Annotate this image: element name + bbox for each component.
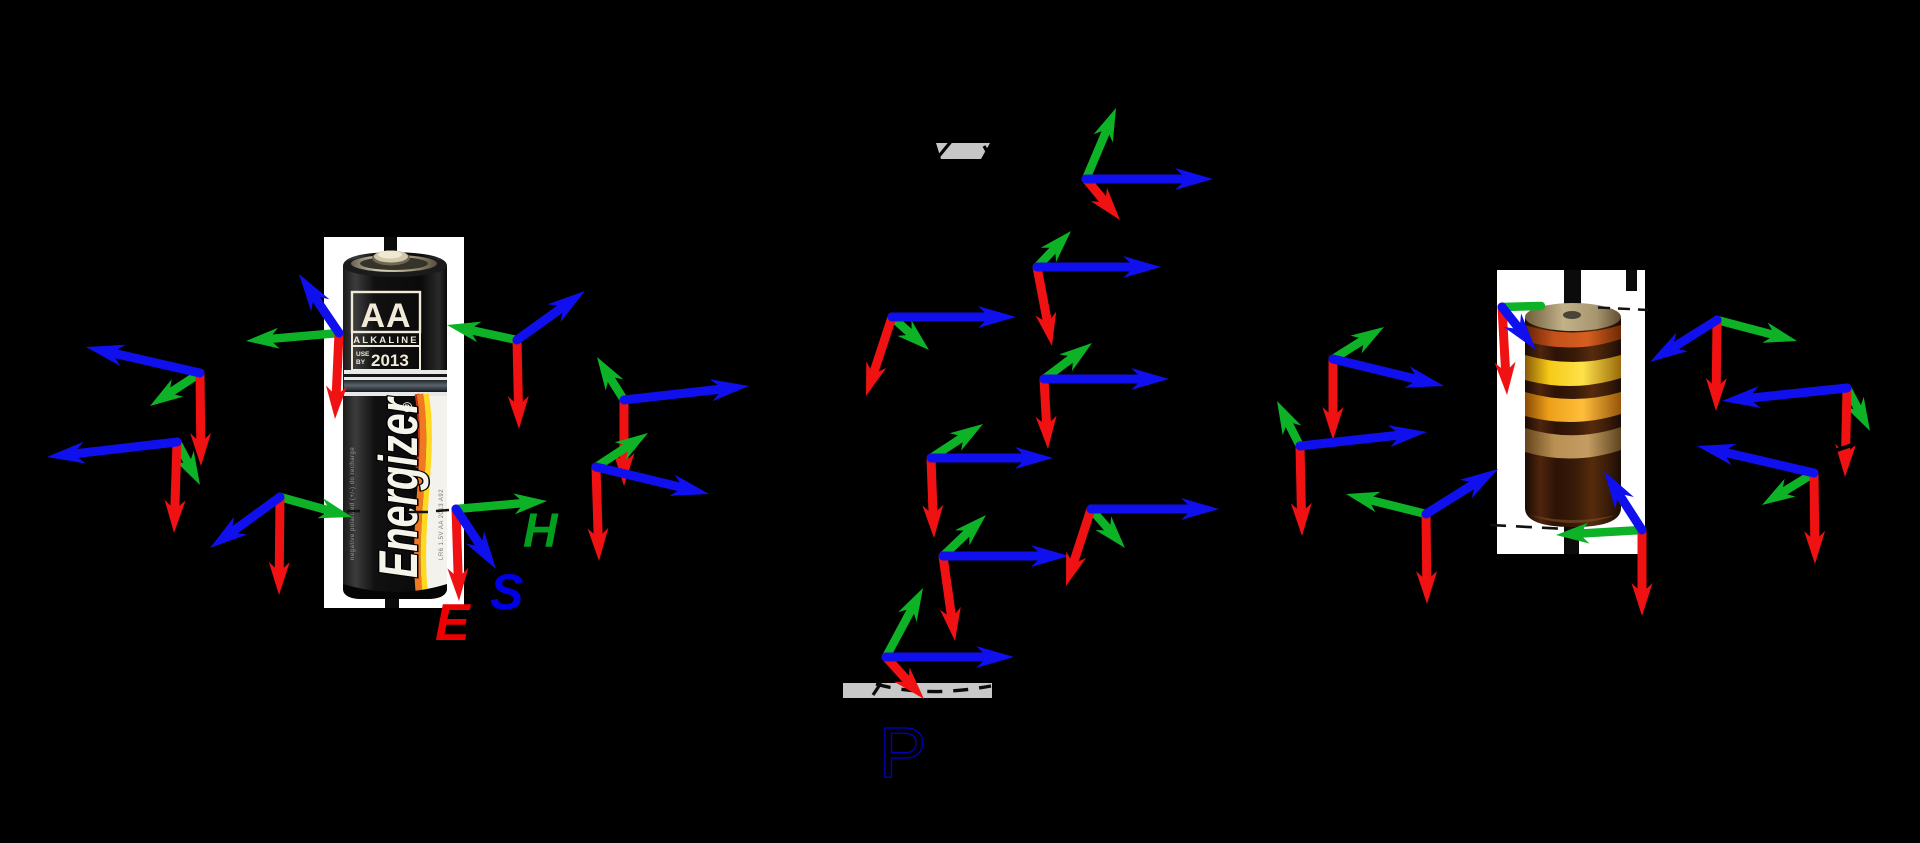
AA battery body bbox=[343, 251, 447, 600]
triad T6 right-of-battery-mid E-field arrow (red) bbox=[620, 400, 629, 466]
triad T6 right-of-battery-mid H-field arrow (green) bbox=[608, 374, 624, 400]
triad T3 far-left-lower E-field arrow (red) bbox=[175, 442, 177, 513]
triad M6 E-field arrow (red) bbox=[943, 556, 952, 621]
triad T6 right-of-battery-mid Poynting S arrow (blue) bbox=[624, 389, 726, 400]
resistor bottom lead wire bbox=[1564, 510, 1579, 554]
triad R3 left-of-resistor-lower E-field arrow (red) bbox=[1422, 514, 1432, 584]
triad RT1 resistor-top-left Poynting S arrow (blue) bbox=[1502, 307, 1521, 332]
svg-text:ALKALINE: ALKALINE bbox=[353, 335, 419, 346]
triad T4 below-battery-left Poynting S arrow (blue) bbox=[229, 497, 280, 534]
svg-text:LR6 1.5V AA 2013 A92: LR6 1.5V AA 2013 A92 bbox=[439, 489, 445, 560]
triad R6 far-right-lower H-field arrow (green) bbox=[1779, 473, 1814, 494]
triad T2 far-left-upper H-field arrow (green) bbox=[167, 373, 200, 395]
triad G battery-EHS-labelled Poynting S arrow (blue) bbox=[456, 509, 483, 549]
triad R2 left-of-resistor-mid H-field arrow (green) bbox=[1286, 419, 1300, 446]
black slash through parallelogram left bbox=[937, 142, 951, 159]
steep dash at plate left bbox=[873, 683, 881, 695]
triad R1 left-of-resistor-top E-field arrow (red) bbox=[1329, 359, 1338, 420]
triad M8 mid-bottom-at-plane E-field arrow (red) bbox=[886, 657, 910, 684]
triad M7 E-field arrow (red) bbox=[1072, 509, 1091, 567]
triad RT1 resistor-top-left H-field arrow (green) bbox=[1502, 306, 1541, 307]
triad R2 left-of-resistor-mid Poynting S arrow (blue) bbox=[1300, 435, 1404, 446]
triad T2 far-left-upper Poynting S arrow (blue) bbox=[109, 352, 200, 373]
swoosh yellow arc bbox=[423, 394, 429, 592]
triad R6 far-right-lower E-field arrow (red) bbox=[1810, 473, 1820, 544]
triad T7 right-of-battery-lower E-field arrow (red) bbox=[596, 467, 598, 541]
triad M3 Poynting S arrow (blue) bbox=[892, 313, 992, 322]
triad M1 mid-top E-field arrow (red) bbox=[1086, 179, 1107, 204]
triad T3 far-left-lower H-field arrow (green) bbox=[177, 442, 190, 467]
triad M5 Poynting S arrow (blue) bbox=[931, 454, 1029, 463]
bottom face light rim bbox=[1530, 515, 1616, 523]
resistor yellow band 1 bbox=[1525, 355, 1621, 386]
resistor tan band 3 bbox=[1525, 427, 1621, 459]
triad T5 battery-right-top E-field arrow (red) bbox=[517, 340, 519, 409]
triad T7 right-of-battery-lower Poynting S arrow (blue) bbox=[596, 467, 686, 489]
triad M4 E-field arrow (red) bbox=[1044, 379, 1047, 429]
gray absorbing plate (bottom) bbox=[843, 683, 992, 698]
triad RB resistor-bottom-right H-field arrow (green) bbox=[1576, 530, 1642, 534]
battery plus button terminal bbox=[372, 251, 410, 266]
battery AA label box bbox=[352, 292, 420, 332]
triad R5 far-right-mid H-field arrow (green) bbox=[1847, 388, 1860, 413]
triad M4 Poynting S arrow (blue) bbox=[1044, 375, 1145, 384]
svg-text:Energizer: Energizer bbox=[367, 396, 429, 578]
svg-text:H: H bbox=[523, 505, 559, 558]
triad T1 battery-left-top H-field arrow (green) bbox=[266, 333, 339, 339]
triad R1 left-of-resistor-top Poynting S arrow (blue) bbox=[1333, 359, 1421, 380]
battery bottom lead wire bbox=[385, 597, 399, 608]
svg-text:BY: BY bbox=[356, 359, 366, 366]
battery USE BY 2013 box bbox=[352, 346, 420, 370]
resistor body bbox=[1525, 303, 1621, 527]
black dash crossing R5 red arrow bbox=[1834, 443, 1858, 451]
triad M2 Poynting S arrow (blue) bbox=[1037, 263, 1137, 272]
triad R2 left-of-resistor-mid E-field arrow (red) bbox=[1300, 446, 1302, 516]
svg-text:®: ® bbox=[402, 399, 413, 415]
triad M5 H-field arrow (green) bbox=[931, 435, 966, 458]
triad T4 below-battery-left H-field arrow (green) bbox=[280, 497, 332, 512]
triad T1 battery-left-top Poynting S arrow (blue) bbox=[312, 294, 339, 334]
triad M3 E-field arrow (red) bbox=[872, 317, 892, 377]
triad G battery-EHS-labelled H-field arrow (green) bbox=[456, 503, 527, 509]
triad T4 below-battery-left E-field arrow (red) bbox=[275, 497, 285, 575]
triad M8 mid-bottom-at-plane H-field arrow (green) bbox=[886, 606, 913, 657]
triad T5 battery-right-top H-field arrow (green) bbox=[467, 329, 517, 340]
triad RB resistor-bottom-right E-field arrow (red) bbox=[1638, 530, 1647, 596]
svg-text:2013: 2013 bbox=[371, 351, 409, 370]
resistor orange band 2 bbox=[1525, 392, 1621, 422]
svg-text:E: E bbox=[435, 594, 471, 652]
battery separator bands bbox=[344, 370, 447, 374]
triad M5 E-field arrow (red) bbox=[931, 458, 933, 518]
triad R6 far-right-lower Poynting S arrow (blue) bbox=[1720, 451, 1814, 473]
triad T3 far-left-lower Poynting S arrow (blue) bbox=[70, 442, 177, 454]
triad M6 H-field arrow (green) bbox=[943, 529, 971, 556]
svg-text:S: S bbox=[490, 564, 523, 620]
svg-text:P: P bbox=[879, 714, 926, 793]
triad M4 H-field arrow (green) bbox=[1044, 355, 1076, 379]
resistor photo white background card bbox=[1497, 270, 1645, 554]
triad M8 mid-bottom-at-plane Poynting S arrow (blue) bbox=[886, 653, 990, 662]
battery lower label: white side with swoosh bbox=[421, 396, 447, 598]
triad R5 far-right-mid E-field arrow (red) bbox=[1846, 388, 1848, 457]
black slash through parallelogram right bbox=[984, 146, 992, 161]
dashed intersection curve on plate bbox=[876, 684, 991, 692]
triad T5 battery-right-top Poynting S arrow (blue) bbox=[517, 305, 566, 340]
swoosh orange arc bbox=[417, 394, 423, 594]
triad R3 left-of-resistor-lower H-field arrow (green) bbox=[1366, 499, 1426, 514]
battery ALKALINE box bbox=[352, 332, 420, 346]
triad R4 right-of-resistor-top E-field arrow (red) bbox=[1712, 320, 1722, 391]
triad R5 far-right-mid Poynting S arrow (blue) bbox=[1745, 388, 1847, 399]
triad R4 right-of-resistor-top H-field arrow (green) bbox=[1717, 320, 1777, 336]
triad T1 battery-left-top E-field arrow (red) bbox=[336, 333, 339, 399]
triad M2 H-field arrow (green) bbox=[1037, 246, 1057, 267]
swoosh red arc bbox=[417, 394, 421, 468]
triad M7 H-field arrow (green) bbox=[1091, 509, 1112, 533]
triad G battery-EHS-labelled E-field arrow (red) bbox=[456, 509, 458, 581]
triad RT1 resistor-top-left E-field arrow (red) bbox=[1502, 307, 1506, 375]
resistor top cap bbox=[1525, 303, 1621, 331]
svg-text:USE: USE bbox=[356, 351, 370, 358]
battery photo white background card bbox=[324, 237, 464, 608]
triad RB resistor-bottom-right Poynting S arrow (blue) bbox=[1617, 491, 1642, 530]
triad M7 Poynting S arrow (blue) bbox=[1091, 505, 1195, 514]
gray wavefront parallelogram (top of flux tube) bbox=[936, 143, 990, 159]
triad R4 right-of-resistor-top Poynting S arrow (blue) bbox=[1670, 320, 1717, 350]
battery top cap bbox=[343, 255, 447, 277]
resistor top lead wire bbox=[1564, 270, 1581, 312]
dashed line at resistor top right bbox=[1598, 308, 1648, 311]
triad M1 mid-top H-field arrow (green) bbox=[1086, 127, 1108, 179]
svg-text:AA: AA bbox=[360, 297, 411, 335]
resistor orange collar under cap bbox=[1525, 325, 1621, 348]
svg-text:negative polarized (+/-) do re: negative polarized (+/-) do recharge bbox=[350, 447, 356, 560]
triad M3 H-field arrow (green) bbox=[892, 317, 914, 336]
triad T7 right-of-battery-lower H-field arrow (green) bbox=[596, 444, 631, 467]
battery bottom rim bbox=[343, 584, 447, 599]
triad R1 left-of-resistor-top H-field arrow (green) bbox=[1333, 338, 1367, 359]
stub of bent top wire at card corner bbox=[1626, 270, 1637, 291]
battery top lead wire bbox=[384, 237, 397, 258]
dashed mid-plane marks at battery bbox=[347, 510, 449, 512]
triad T2 far-left-upper E-field arrow (red) bbox=[196, 373, 206, 446]
triad M1 mid-top Poynting S arrow (blue) bbox=[1086, 175, 1189, 184]
triad R3 left-of-resistor-lower Poynting S arrow (blue) bbox=[1426, 482, 1478, 515]
triad M2 E-field arrow (red) bbox=[1037, 267, 1048, 326]
triad M6 Poynting S arrow (blue) bbox=[943, 552, 1045, 561]
dashed line across resistor bottom bbox=[1490, 525, 1643, 533]
